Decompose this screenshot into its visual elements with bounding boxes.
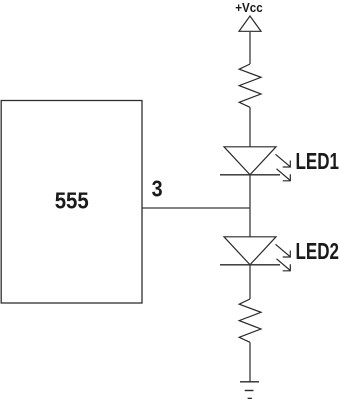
svg-text:LED1: LED1: [296, 148, 340, 174]
svg-text:LED2: LED2: [296, 238, 340, 264]
svg-text:555: 555: [55, 188, 89, 214]
svg-text:+Vcc: +Vcc: [235, 0, 263, 15]
svg-text:3: 3: [152, 176, 163, 202]
